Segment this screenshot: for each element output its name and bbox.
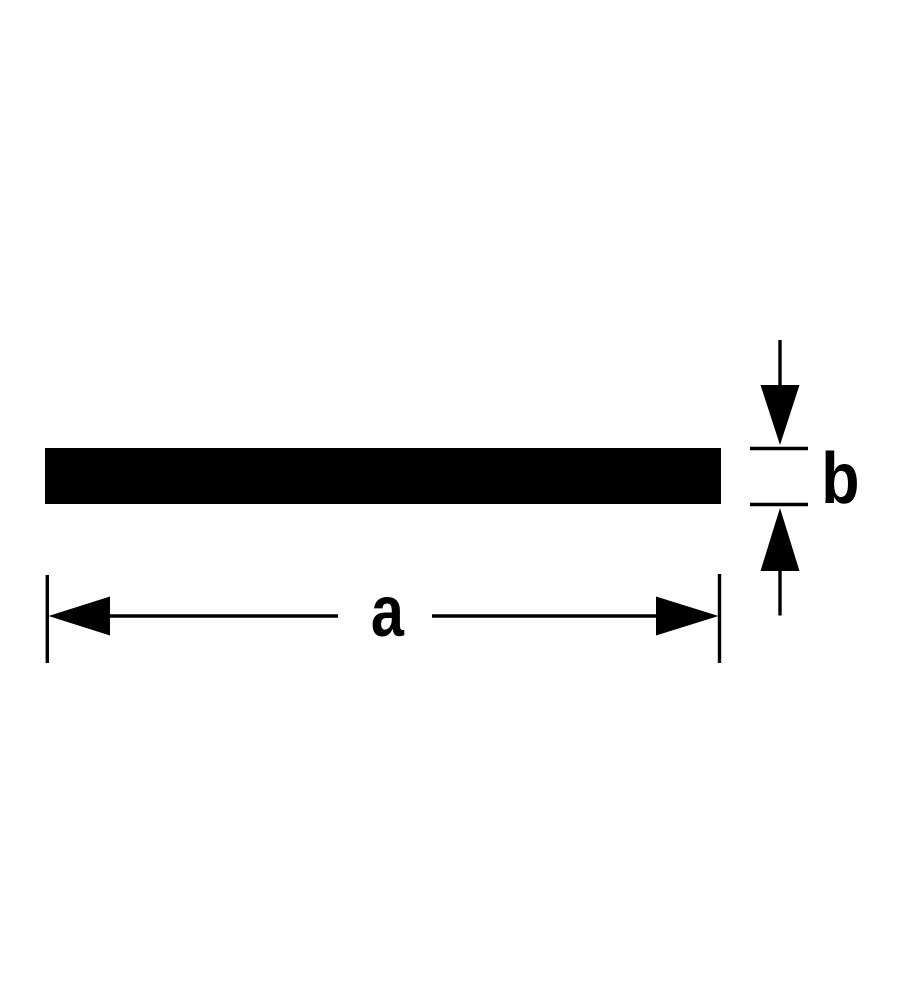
dimension b: lower arrow shaft bbox=[778, 568, 781, 616]
dimension a: right line segment bbox=[432, 614, 658, 617]
dimension b: bottom extension tick bbox=[750, 503, 808, 506]
dimension b: lower arrowhead (pointing up) bbox=[761, 508, 800, 571]
dimension a: left extension line bbox=[46, 575, 49, 663]
dimension b: upper arrowhead (pointing down) bbox=[761, 385, 800, 445]
svg-text:a: a bbox=[371, 571, 405, 652]
dimension b: top extension tick bbox=[750, 447, 808, 450]
dimension b: upper arrow shaft bbox=[778, 340, 781, 390]
dimension a: right arrowhead (pointing right) bbox=[656, 597, 719, 636]
dimension a: left line segment bbox=[108, 614, 338, 617]
flat bar profile (black rectangle) bbox=[45, 448, 721, 504]
dimension a: left arrowhead (pointing left) bbox=[49, 597, 111, 636]
svg-text:b: b bbox=[821, 439, 859, 519]
dimension a: right extension line bbox=[718, 574, 721, 663]
